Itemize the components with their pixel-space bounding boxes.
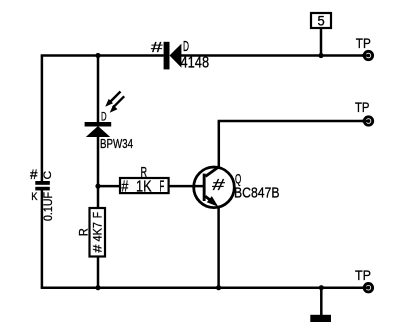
- diode D 4148 name label D: [183, 39, 189, 55]
- test point TP bottom circle: [362, 284, 373, 292]
- wire emitter vertical: [217, 207, 220, 288]
- svg-text:4K7: 4K7: [91, 222, 105, 242]
- transistor Q1 value label BC847B: [234, 185, 280, 202]
- resistor R1 box: [120, 178, 169, 193]
- svg-text:#: #: [151, 40, 163, 56]
- net label 5 text: [318, 13, 325, 28]
- capacitor name label C rotated: [42, 171, 54, 180]
- wire collector vertical: [218, 121, 221, 168]
- svg-text:F: F: [160, 178, 165, 195]
- resistor R2 value label rotated: [91, 212, 105, 253]
- photodiode light arrow 2: [110, 96, 125, 112]
- svg-text:BC847B: BC847B: [234, 185, 280, 202]
- svg-text:R: R: [77, 228, 91, 236]
- wire bottom horizontal: [41, 286, 369, 289]
- wire photodiode branch lower: [97, 136, 100, 209]
- svg-text:TP: TP: [355, 267, 371, 283]
- svg-text:5: 5: [318, 13, 325, 28]
- ground symbol: [310, 315, 331, 322]
- svg-text:F: F: [91, 212, 105, 218]
- net label 5 box: [311, 13, 331, 28]
- svg-text:#: #: [30, 167, 38, 182]
- svg-text:#: #: [211, 176, 226, 194]
- diode D 4148 value label: [181, 55, 210, 72]
- node junction net 5: [318, 53, 323, 58]
- transistor Q1 collector diagonal: [206, 167, 219, 176]
- svg-text:#: #: [91, 244, 105, 252]
- resistor R1 value label: [121, 178, 164, 195]
- wire base branch left of R1: [98, 185, 121, 188]
- wire top-left vertical segment: [41, 56, 44, 182]
- wire collector horizontal to TP: [218, 120, 369, 123]
- svg-text:D: D: [183, 39, 189, 55]
- diode D 4148 symbol: [164, 42, 182, 70]
- svg-text:R: R: [141, 164, 148, 181]
- photodiode D BPW34 symbol: [85, 122, 112, 137]
- node junction ground: [319, 285, 324, 290]
- svg-text:D: D: [101, 110, 107, 124]
- test point TP top label: [356, 35, 371, 51]
- resistor R1 name label R: [141, 164, 148, 181]
- transistor Q1 emitter diagonal with arrow: [205, 196, 218, 207]
- transistor Q1 hash label: [211, 176, 226, 194]
- svg-text:TP: TP: [356, 35, 371, 51]
- node junction base branch: [95, 184, 100, 189]
- photodiode value label BPW34: [100, 136, 133, 151]
- test point TP middle circle: [362, 117, 373, 125]
- wire stub from net label 5: [320, 28, 323, 56]
- wire top horizontal left of diode: [41, 54, 164, 57]
- wire resistor R2 bottom lead: [97, 256, 100, 288]
- wire photodiode branch upper: [97, 56, 100, 123]
- wire base branch right of R1: [168, 185, 203, 188]
- node junction emitter bottom: [216, 285, 221, 290]
- node junction R2 bottom: [95, 285, 100, 290]
- svg-text:C: C: [42, 171, 54, 180]
- capacitor K label: [31, 191, 38, 203]
- svg-text:#: #: [121, 178, 128, 195]
- capacitor value label 0.1UF rotated: [41, 192, 55, 221]
- svg-text:4148: 4148: [181, 55, 210, 72]
- diode D 4148 hash label: [151, 40, 163, 56]
- resistor R2 box: [90, 208, 106, 257]
- capacitor C plates: [35, 181, 50, 190]
- wire bottom-left vertical segment: [41, 190, 44, 288]
- node junction photodiode top: [95, 53, 100, 58]
- photodiode name label D: [101, 110, 107, 124]
- svg-text:0.1UF: 0.1UF: [41, 192, 55, 221]
- svg-text:K: K: [31, 191, 38, 203]
- test point TP middle label: [355, 99, 370, 115]
- svg-text:BPW34: BPW34: [100, 136, 133, 151]
- resistor R2 name label R rotated: [77, 228, 91, 236]
- test point TP top circle: [362, 51, 373, 59]
- wire top horizontal right of diode: [181, 54, 368, 57]
- wire ground stub: [320, 288, 323, 315]
- capacitor hash label: [30, 167, 38, 182]
- svg-text:TP: TP: [355, 99, 370, 115]
- transistor Q1 base bar: [203, 174, 206, 201]
- test point TP bottom label: [355, 267, 371, 283]
- photodiode light arrow 1: [105, 92, 120, 107]
- transistor Q1 name label Q: [235, 171, 241, 186]
- transistor Q1 circle: [194, 167, 235, 208]
